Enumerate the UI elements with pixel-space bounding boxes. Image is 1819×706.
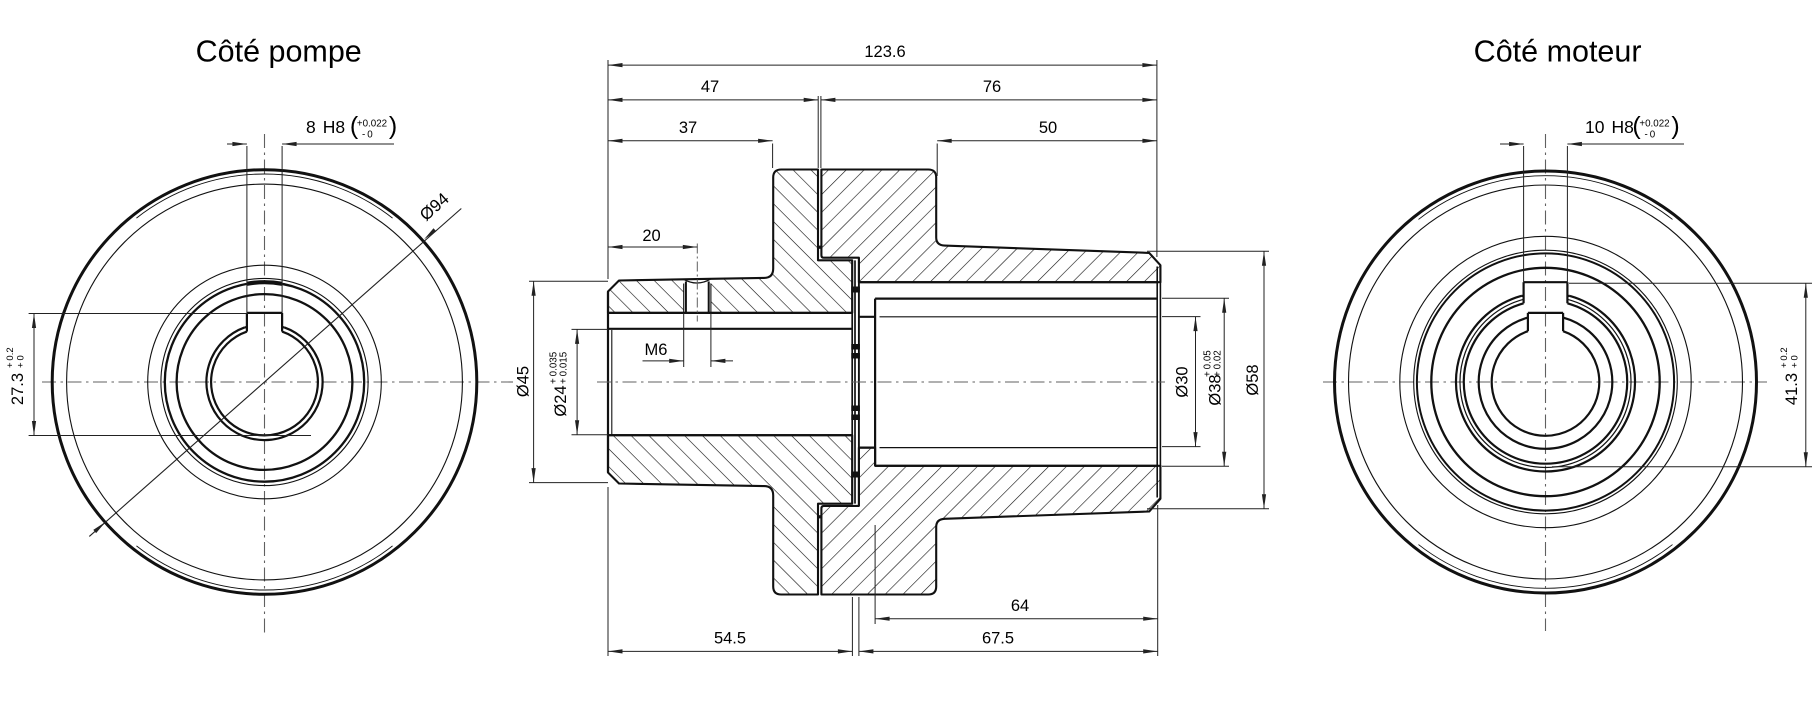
svg-text:Ø24: Ø24 [552, 385, 570, 416]
svg-text:Côté pompe: Côté pompe [196, 35, 362, 69]
svg-text:Ø30: Ø30 [1174, 366, 1192, 397]
svg-text:+ 0: + 0 [15, 355, 26, 368]
svg-text:27.3: 27.3 [9, 373, 27, 405]
svg-text:20: 20 [642, 227, 660, 245]
svg-text:- 0: - 0 [362, 130, 373, 141]
svg-text:50: 50 [1039, 119, 1057, 137]
svg-text:+ 0.015: + 0.015 [558, 351, 569, 384]
svg-text:): ) [389, 112, 397, 140]
svg-text:47: 47 [701, 78, 719, 96]
svg-text:Ø45: Ø45 [515, 366, 533, 397]
svg-text:54.5: 54.5 [714, 630, 746, 648]
svg-text:10 H8: 10 H8 [1585, 117, 1634, 137]
svg-text:41.3: 41.3 [1783, 373, 1801, 405]
svg-text:Ø58: Ø58 [1244, 364, 1262, 395]
svg-text:76: 76 [983, 78, 1001, 96]
svg-text:123.6: 123.6 [864, 43, 905, 61]
svg-text:+ 0: + 0 [1790, 355, 1801, 368]
svg-text:): ) [1671, 112, 1679, 140]
svg-text:- 0: - 0 [1645, 130, 1656, 141]
svg-text:+0.022: +0.022 [1639, 119, 1669, 130]
svg-text:M6: M6 [645, 341, 668, 359]
svg-text:37: 37 [679, 119, 697, 137]
svg-text:+0.022: +0.022 [357, 119, 387, 130]
svg-text:64: 64 [1011, 597, 1029, 615]
svg-text:+ 0.2: + 0.2 [1779, 347, 1790, 368]
svg-text:Côté moteur: Côté moteur [1474, 35, 1642, 69]
svg-text:8 H8: 8 H8 [306, 117, 345, 137]
svg-text:+ 0.02: + 0.02 [1212, 350, 1223, 377]
svg-text:Ø38: Ø38 [1207, 374, 1225, 405]
svg-text:67.5: 67.5 [982, 630, 1014, 648]
